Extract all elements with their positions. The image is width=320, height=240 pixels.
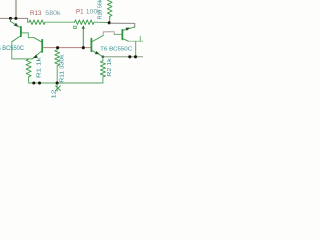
transistor T6a collector diagonal <box>92 35 103 41</box>
resistor R13 580k zigzag <box>29 20 45 25</box>
svg-text:5 BC550C: 5 BC550C <box>0 46 25 52</box>
wire base net red line <box>43 47 90 49</box>
wire R2 lead bottom <box>102 77 104 83</box>
X marker below rail <box>56 86 61 91</box>
transistor T6a emitter diagonal with arrow <box>92 51 102 57</box>
svg-text:T6 BC550C: T6 BC550C <box>100 47 133 53</box>
wire bottom-right horizontal <box>103 56 143 58</box>
wire step to R13 <box>28 19 29 23</box>
wire top-left rail horizontal <box>0 17 28 19</box>
wire R13 to P1 <box>45 21 75 23</box>
wire T4 emitter horizontal <box>12 58 32 60</box>
wire top-left rail vertical <box>15 0 17 18</box>
wire T6a collector elbow <box>103 32 114 36</box>
wire T5 base to middle transistor collector <box>22 33 34 38</box>
transistor T5 bar <box>20 27 22 37</box>
wire T5 collector down <box>11 42 13 59</box>
transistor T5 collector diagonal <box>12 36 21 42</box>
wire R2 lead top <box>102 57 104 61</box>
potentiometer P1 100k zigzag <box>75 20 95 25</box>
node junction dot bottom rail 3 <box>56 81 59 84</box>
svg-text:R13: R13 <box>30 11 42 17</box>
node junction dot T6a emitter <box>102 56 105 59</box>
wire R10 lead down <box>109 16 111 22</box>
resistor R11 330k vertical zigzag <box>55 50 60 66</box>
transistor T6b emitter diagonal with arrow <box>123 27 135 30</box>
transistor T6b bar <box>121 30 123 40</box>
node junction dot bottom right 2 <box>134 55 137 58</box>
resistor R1 1k vertical zigzag <box>26 59 31 77</box>
transistor T4 emitter diagonal with arrow <box>32 51 41 59</box>
svg-text:580k: 580k <box>45 11 61 17</box>
transistor T4 collector diagonal <box>34 38 42 42</box>
svg-text:12: 12 <box>51 90 57 99</box>
node junction dot bottom rail 2 <box>38 82 41 85</box>
pin marker square near P1 wiper <box>74 26 77 29</box>
wire stub up at x140 <box>139 36 141 41</box>
wire R1 lead down and bottom rail <box>29 77 103 83</box>
svg-text:P1: P1 <box>76 10 84 16</box>
wire T6b base <box>114 33 121 35</box>
pin stub below rail at R11 <box>56 84 58 91</box>
node junction dot bottom rail 1 <box>32 82 35 85</box>
svg-text:R10 56k: R10 56k <box>98 0 104 20</box>
node junction dot R10 <box>108 21 111 24</box>
node junction dot R11 top <box>56 46 59 49</box>
node junction dot A <box>9 17 12 20</box>
transistor T4 bar <box>41 40 43 52</box>
svg-text:R1 1k: R1 1k <box>37 57 43 78</box>
wire drop to bottom-right net <box>135 41 137 57</box>
wire P1 to R10 node <box>94 21 109 23</box>
node junction dot B <box>14 17 17 20</box>
wire top-right rail <box>111 23 135 27</box>
svg-text:R2 1k: R2 1k <box>107 58 113 77</box>
potentiometer P1 wiper arrow <box>82 28 84 47</box>
node junction dot bottom right 1 <box>128 55 131 58</box>
resistor R10 56k vertical zigzag <box>107 0 112 16</box>
transistor T6a bar <box>90 39 92 52</box>
svg-text:R11 330k: R11 330k <box>60 55 66 83</box>
transistor T5 emitter diagonal with arrow <box>11 21 21 27</box>
resistor R2 1k vertical zigzag <box>100 61 105 77</box>
wire R11 lead down <box>56 66 58 83</box>
node junction dot P1 wiper <box>82 46 85 49</box>
wire T6b collector to right edge <box>129 40 143 42</box>
transistor T6b collector diagonal <box>123 39 128 42</box>
transistor T5 emitter wire stub <box>10 19 12 21</box>
